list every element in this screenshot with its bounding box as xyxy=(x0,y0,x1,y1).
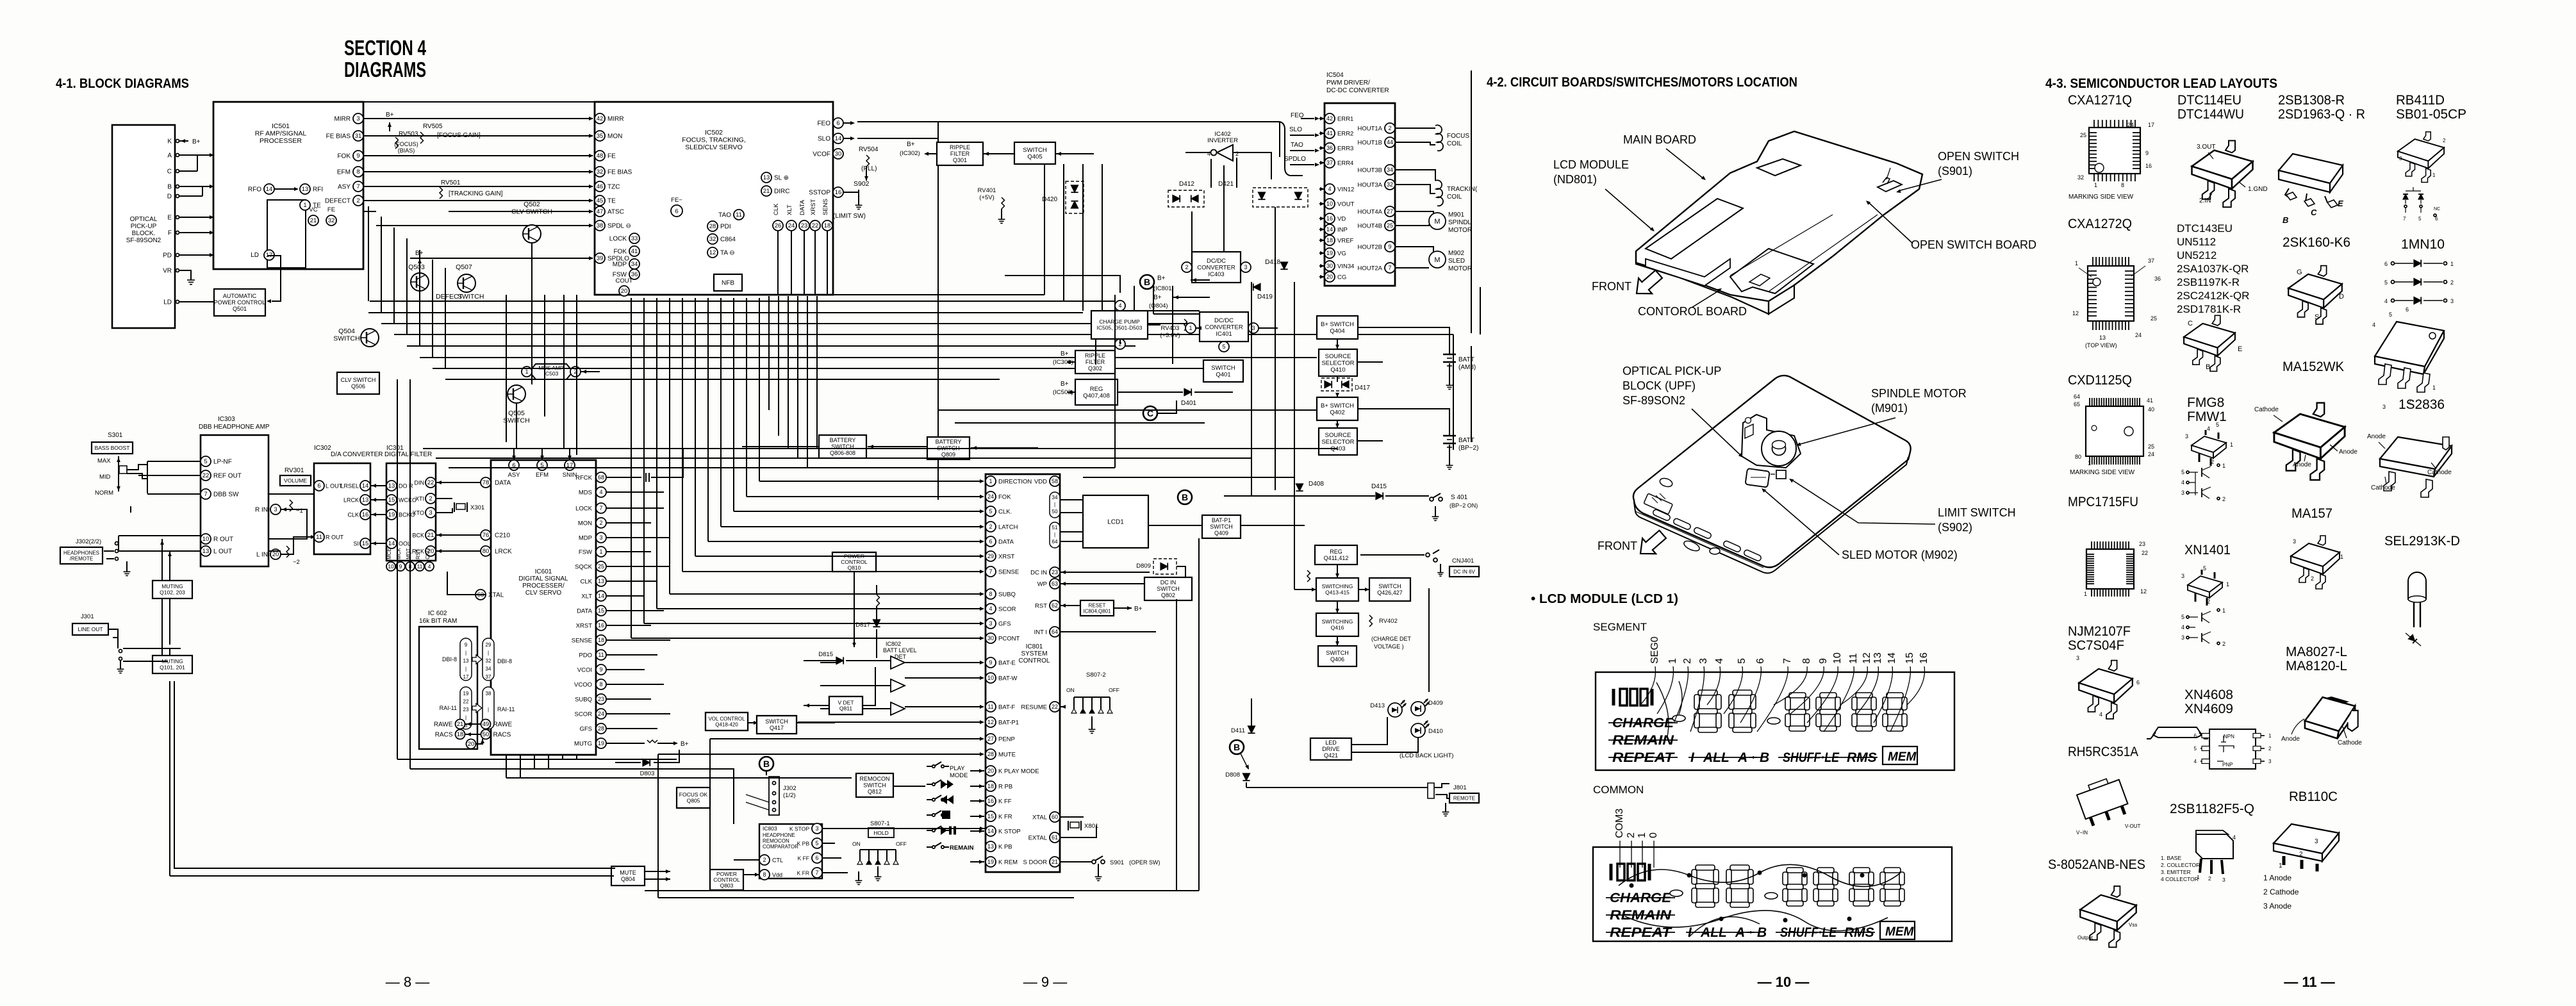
svg-text:Q806-808: Q806-808 xyxy=(830,450,855,456)
svg-text:B+ SWITCH: B+ SWITCH xyxy=(1321,321,1354,328)
svg-text:51: 51 xyxy=(1052,525,1058,531)
svg-text:IC303: IC303 xyxy=(218,416,235,423)
svg-text:1: 1 xyxy=(525,368,528,375)
svg-text:16: 16 xyxy=(835,189,842,196)
svg-text:MON: MON xyxy=(578,520,592,527)
svg-text:18: 18 xyxy=(987,783,994,789)
svg-text:CTL: CTL xyxy=(772,857,783,864)
svg-text:2: 2 xyxy=(2450,279,2454,286)
svg-text:POWER CONTROL: POWER CONTROL xyxy=(214,299,266,306)
svg-text:OPTICAL: OPTICAL xyxy=(130,216,158,223)
svg-text:SEL2913K-D: SEL2913K-D xyxy=(2384,534,2460,548)
svg-text:5: 5 xyxy=(989,508,992,515)
svg-text:RAWE: RAWE xyxy=(434,722,453,729)
svg-text:HOUT4A: HOUT4A xyxy=(1357,209,1382,216)
svg-text:EXTAL: EXTAL xyxy=(1028,835,1047,842)
svg-text:PICK-UP: PICK-UP xyxy=(131,223,157,230)
svg-text:4: 4 xyxy=(1118,302,1121,309)
svg-text:FE BIAS: FE BIAS xyxy=(607,169,632,176)
svg-text:3. EMITTER: 3. EMITTER xyxy=(2161,869,2191,875)
svg-text:35: 35 xyxy=(597,133,604,140)
svg-text:18: 18 xyxy=(457,731,464,738)
svg-text:30: 30 xyxy=(1326,263,1333,269)
svg-text:OFF: OFF xyxy=(1109,687,1119,693)
svg-text:13: 13 xyxy=(1872,652,1883,664)
svg-text:21: 21 xyxy=(763,188,770,195)
svg-text:RESUME: RESUME xyxy=(1021,704,1047,711)
svg-text:DEFECT: DEFECT xyxy=(325,198,351,205)
svg-text:13: 13 xyxy=(763,174,770,181)
svg-text:34: 34 xyxy=(1387,167,1393,173)
svg-text:Q506: Q506 xyxy=(351,383,365,390)
svg-text:D808: D808 xyxy=(1225,771,1240,779)
svg-text:SWITCH: SWITCH xyxy=(1157,586,1180,592)
svg-text:FILTER: FILTER xyxy=(950,151,970,157)
svg-text:VCOF: VCOF xyxy=(813,151,830,158)
svg-text:FE BIAS: FE BIAS xyxy=(326,133,351,140)
svg-text:X301: X301 xyxy=(470,504,484,511)
svg-text:XTAL: XTAL xyxy=(1032,814,1047,821)
svg-text:Q416: Q416 xyxy=(1331,625,1344,631)
svg-text:HOLD: HOLD xyxy=(873,830,889,836)
svg-text:DATA: DATA xyxy=(495,480,511,487)
svg-text:SPINDL: SPINDL xyxy=(1448,219,1472,226)
svg-text:LCD MODULE: LCD MODULE xyxy=(1553,158,1629,171)
svg-text:XLT: XLT xyxy=(786,204,793,215)
svg-text:B+: B+ xyxy=(907,141,915,148)
svg-text:SUBQ: SUBQ xyxy=(998,591,1016,598)
svg-text:PDO: PDO xyxy=(579,652,592,659)
svg-text:MAX: MAX xyxy=(97,458,111,465)
svg-text:DC IN: DC IN xyxy=(1160,579,1177,586)
svg-text:B+: B+ xyxy=(1061,381,1069,388)
svg-text:1.GND: 1.GND xyxy=(2248,186,2268,193)
svg-text:12: 12 xyxy=(709,249,716,256)
svg-text:FMG8: FMG8 xyxy=(2187,395,2224,410)
svg-text:Cathode: Cathode xyxy=(2254,406,2279,413)
svg-text:4: 4 xyxy=(2233,834,2236,841)
svg-text:39: 39 xyxy=(597,255,604,262)
svg-text:MUTE: MUTE xyxy=(620,870,636,876)
svg-text:3: 3 xyxy=(2399,156,2402,161)
svg-text:1: 1 xyxy=(1667,658,1678,664)
svg-text:VDD: VDD xyxy=(1034,479,1047,486)
svg-text:20: 20 xyxy=(621,288,628,295)
svg-text:K FF: K FF xyxy=(798,855,809,862)
svg-text:3: 3 xyxy=(429,509,432,516)
svg-text:78: 78 xyxy=(483,479,490,486)
svg-text:CG: CG xyxy=(1337,274,1346,281)
svg-text:15: 15 xyxy=(987,813,994,820)
svg-text:19: 19 xyxy=(463,691,469,697)
svg-text:SLED/CLV SERVO: SLED/CLV SERVO xyxy=(685,144,742,151)
svg-text:24: 24 xyxy=(987,493,994,500)
svg-text:2: 2 xyxy=(2311,575,2314,582)
svg-text:DC/DC: DC/DC xyxy=(1207,258,1226,265)
svg-text:5: 5 xyxy=(2418,216,2422,222)
svg-text:6: 6 xyxy=(836,120,839,127)
svg-text:DBI-8: DBI-8 xyxy=(497,658,512,664)
svg-text:2: 2 xyxy=(1235,151,1239,157)
svg-text:S 401: S 401 xyxy=(1451,494,1468,501)
svg-text:5: 5 xyxy=(2194,746,2197,752)
svg-text:D815: D815 xyxy=(818,651,833,658)
svg-text:2: 2 xyxy=(989,524,992,530)
svg-text:BATTERY: BATTERY xyxy=(830,437,856,443)
svg-text:50: 50 xyxy=(483,731,490,738)
svg-text:3: 3 xyxy=(815,825,818,832)
svg-text:4 COLLECTOR: 4 COLLECTOR xyxy=(2161,876,2199,882)
svg-text:Q501: Q501 xyxy=(233,306,247,312)
svg-text:2: 2 xyxy=(2208,875,2211,882)
svg-text:SOURCE: SOURCE xyxy=(1325,432,1351,439)
svg-text:WCKO: WCKO xyxy=(399,497,417,504)
svg-text:3 Anode: 3 Anode xyxy=(2263,902,2291,911)
svg-text:|: | xyxy=(488,650,489,656)
svg-text:2: 2 xyxy=(2211,459,2214,465)
svg-text:(BP−2): (BP−2) xyxy=(1458,445,1478,452)
svg-text:5: 5 xyxy=(2216,422,2219,428)
svg-text:AUTOMATIC: AUTOMATIC xyxy=(223,293,257,299)
svg-text:MDP: MDP xyxy=(613,261,627,268)
svg-text:2SB1308-R: 2SB1308-R xyxy=(2278,93,2345,108)
svg-text:12: 12 xyxy=(1862,652,1872,664)
svg-text:OOL: OOL xyxy=(399,541,411,547)
svg-text:NORM: NORM xyxy=(95,490,113,497)
svg-text:PNP: PNP xyxy=(2222,762,2233,768)
svg-text:SWITCH: SWITCH xyxy=(1023,147,1047,154)
svg-text:SI: SI xyxy=(353,541,359,547)
svg-text:DIRECTION: DIRECTION xyxy=(998,479,1032,486)
svg-text:MEM: MEM xyxy=(1888,750,1917,764)
svg-text:K STOP: K STOP xyxy=(789,826,809,832)
svg-text:3: 3 xyxy=(989,620,992,627)
svg-text:2: 2 xyxy=(1388,125,1391,131)
svg-text:VCOI: VCOI xyxy=(577,667,592,674)
svg-text:D/A CONVERTER: D/A CONVERTER xyxy=(331,451,383,458)
svg-text:MARKING SIDE VIEW: MARKING SIDE VIEW xyxy=(2070,469,2135,476)
svg-text:32: 32 xyxy=(2077,174,2084,181)
svg-text:FOCUS: FOCUS xyxy=(1447,133,1469,140)
svg-text:SEG0: SEG0 xyxy=(1649,636,1660,664)
svg-text:BATT: BATT xyxy=(1458,356,1474,363)
svg-text:K: K xyxy=(167,138,172,145)
svg-text:RV301: RV301 xyxy=(285,467,304,474)
svg-text:Cathode: Cathode xyxy=(2338,739,2362,746)
svg-text:Q503: Q503 xyxy=(408,263,425,271)
svg-text:TAO: TAO xyxy=(718,212,731,219)
svg-text:1: 1 xyxy=(1189,325,1192,331)
svg-text:0: 0 xyxy=(1648,832,1659,838)
svg-text:2: 2 xyxy=(2268,746,2272,752)
svg-text:25: 25 xyxy=(2080,132,2086,138)
svg-text:ATSC: ATSC xyxy=(607,209,624,216)
svg-text:28: 28 xyxy=(598,725,604,732)
svg-text:NPN: NPN xyxy=(2224,734,2234,739)
svg-text:30: 30 xyxy=(835,151,842,158)
svg-text:J801: J801 xyxy=(1453,784,1467,791)
svg-text:PWM DRIVER/: PWM DRIVER/ xyxy=(1326,79,1370,87)
svg-text:Vss: Vss xyxy=(2129,922,2137,928)
svg-text:25: 25 xyxy=(598,563,604,570)
svg-text:|: | xyxy=(465,650,466,656)
svg-text:8: 8 xyxy=(1801,658,1812,664)
svg-text:4: 4 xyxy=(1714,658,1725,664)
svg-text:SEGMENT: SEGMENT xyxy=(1593,621,1647,633)
svg-text:3: 3 xyxy=(2181,573,2184,579)
svg-text:3: 3 xyxy=(599,534,602,541)
svg-text:14: 14 xyxy=(266,186,273,193)
svg-text:RV504: RV504 xyxy=(859,146,879,153)
svg-text:IC803: IC803 xyxy=(763,825,777,832)
svg-text:IC801: IC801 xyxy=(1026,643,1043,650)
svg-text:Q302: Q302 xyxy=(1088,365,1102,372)
svg-text:SELECTOR: SELECTOR xyxy=(1321,438,1354,445)
svg-text:Q402: Q402 xyxy=(1330,409,1344,416)
svg-text:63: 63 xyxy=(1052,581,1058,587)
svg-text:44: 44 xyxy=(1387,139,1393,145)
svg-text:VOUT: VOUT xyxy=(1337,201,1355,208)
svg-text:C: C xyxy=(2311,208,2317,217)
svg-text:COUT: COUT xyxy=(616,277,633,284)
svg-text:21: 21 xyxy=(310,217,317,224)
svg-text:3: 3 xyxy=(1251,325,1255,331)
svg-text:Q504: Q504 xyxy=(338,327,355,335)
svg-text:24: 24 xyxy=(2135,332,2142,338)
svg-text:1: 1 xyxy=(2230,441,2233,448)
svg-text:MUTING: MUTING xyxy=(161,583,183,590)
svg-text:37: 37 xyxy=(486,674,491,680)
svg-text:B: B xyxy=(2206,363,2210,371)
svg-text:22: 22 xyxy=(2142,550,2148,556)
svg-text:SB01-05CP: SB01-05CP xyxy=(2396,107,2466,122)
svg-text:SWITCHING: SWITCHING xyxy=(1322,583,1353,590)
svg-text:IC505, D501-D503: IC505, D501-D503 xyxy=(1097,325,1143,331)
svg-text:REMOCON: REMOCON xyxy=(860,776,890,782)
svg-text:2: 2 xyxy=(599,520,602,526)
svg-text:IC504: IC504 xyxy=(1326,72,1344,79)
svg-text:SENSE: SENSE xyxy=(998,569,1019,576)
svg-text:DO R: DO R xyxy=(399,483,413,490)
svg-text:19: 19 xyxy=(1326,250,1333,256)
svg-text:LD: LD xyxy=(251,252,259,259)
svg-text:23: 23 xyxy=(801,222,808,229)
svg-text:VR: VR xyxy=(163,268,172,275)
svg-text:18: 18 xyxy=(598,637,604,643)
svg-text:CLK: CLK xyxy=(347,512,359,518)
svg-text:IC802: IC802 xyxy=(886,641,901,647)
svg-text:S807-2: S807-2 xyxy=(1086,672,1106,679)
svg-text:42: 42 xyxy=(597,115,604,122)
svg-text:M902: M902 xyxy=(1448,250,1464,257)
svg-text:13: 13 xyxy=(302,186,309,193)
svg-text:FE−: FE− xyxy=(671,197,682,204)
svg-text:29: 29 xyxy=(987,553,994,559)
svg-text:RIPPLE: RIPPLE xyxy=(950,144,970,151)
svg-text:38: 38 xyxy=(486,691,491,697)
svg-text:CLK.: CLK. xyxy=(998,509,1012,516)
svg-text:FRONT: FRONT xyxy=(1592,280,1631,293)
svg-text:(+3.6V): (+3.6V) xyxy=(1160,332,1180,339)
svg-text:2. COLLECTOR: 2. COLLECTOR xyxy=(2161,862,2200,868)
svg-text:SCOR: SCOR xyxy=(575,711,593,718)
svg-text:MIRR: MIRR xyxy=(607,116,624,123)
svg-text:(CHARGE DET: (CHARGE DET xyxy=(1371,636,1412,642)
svg-text:IC804,Q801: IC804,Q801 xyxy=(1083,608,1111,614)
svg-text:K FR: K FR xyxy=(998,814,1012,821)
svg-text:BLOCK.: BLOCK. xyxy=(132,230,156,237)
svg-text:1: 1 xyxy=(2075,260,2078,267)
svg-text:XN4608: XN4608 xyxy=(2184,688,2233,702)
svg-text:2: 2 xyxy=(2299,851,2303,858)
svg-text:B: B xyxy=(1182,492,1188,502)
svg-text:16: 16 xyxy=(987,798,994,804)
svg-text:CLV SWITCH: CLV SWITCH xyxy=(341,377,376,383)
svg-text:DIN: DIN xyxy=(415,480,425,486)
svg-text:CHARGE PUMP: CHARGE PUMP xyxy=(1099,318,1140,325)
svg-text:46: 46 xyxy=(597,183,604,190)
svg-text:RFO: RFO xyxy=(248,186,261,194)
svg-text:FOK: FOK xyxy=(337,153,351,160)
svg-text:MCE: MCE xyxy=(386,548,392,559)
svg-text:COIL: COIL xyxy=(1447,194,1462,201)
svg-text:Q812: Q812 xyxy=(868,789,882,795)
svg-text:TE: TE xyxy=(607,198,616,205)
svg-text:6: 6 xyxy=(675,208,678,215)
svg-text:16k BIT RAM: 16k BIT RAM xyxy=(419,618,457,625)
svg-text:11: 11 xyxy=(598,652,604,658)
svg-text:17: 17 xyxy=(463,674,469,680)
svg-text:MOTOR: MOTOR xyxy=(1448,265,1472,272)
svg-text:6: 6 xyxy=(815,855,818,861)
svg-text:Q410: Q410 xyxy=(1330,367,1345,374)
svg-text:15: 15 xyxy=(388,497,395,504)
svg-text:22: 22 xyxy=(1052,704,1058,710)
svg-text:D817: D817 xyxy=(855,622,870,629)
svg-text:RV402: RV402 xyxy=(1379,618,1398,625)
svg-text:M901: M901 xyxy=(1448,211,1464,219)
svg-text:E: E xyxy=(167,215,172,222)
svg-text:DATA: DATA xyxy=(998,539,1014,546)
svg-text:D419: D419 xyxy=(1257,293,1273,301)
svg-text:21: 21 xyxy=(457,721,464,728)
svg-text:Q413-415: Q413-415 xyxy=(1325,590,1350,596)
svg-text:4: 4 xyxy=(2181,624,2184,631)
svg-text:(PLL): (PLL) xyxy=(861,165,877,172)
svg-text:SNIN: SNIN xyxy=(563,472,577,479)
svg-text:5: 5 xyxy=(1222,343,1225,350)
svg-text:4-3. SEMICONDUCTOR LEAD LAY: 4-3. SEMICONDUCTOR LEAD LAYOUTS xyxy=(2045,76,2277,91)
svg-text:24: 24 xyxy=(2148,451,2154,458)
svg-text:14: 14 xyxy=(598,593,604,599)
svg-text:24: 24 xyxy=(2127,122,2134,128)
svg-text:IC601: IC601 xyxy=(535,568,552,575)
svg-text:SLO: SLO xyxy=(1289,126,1302,133)
svg-text:MPC1715FU: MPC1715FU xyxy=(2068,495,2138,509)
svg-text:Q803: Q803 xyxy=(720,882,734,889)
svg-text:3: 3 xyxy=(2181,634,2184,641)
svg-text:SL ⊕: SL ⊕ xyxy=(774,175,789,182)
svg-text:21: 21 xyxy=(1052,859,1058,865)
svg-text:SCOR: SCOR xyxy=(998,606,1016,613)
svg-text:XTI: XTI xyxy=(415,496,424,502)
svg-text:19: 19 xyxy=(987,859,994,865)
svg-text:4: 4 xyxy=(1328,186,1331,192)
svg-text:Vdd: Vdd xyxy=(772,872,782,878)
svg-text:Q101, 201: Q101, 201 xyxy=(160,664,185,671)
svg-text:GFS: GFS xyxy=(998,621,1011,628)
svg-text:6: 6 xyxy=(2194,733,2197,739)
svg-text:FRONT: FRONT xyxy=(1598,540,1637,552)
svg-text:20: 20 xyxy=(987,768,994,774)
svg-text:65: 65 xyxy=(2074,401,2080,408)
svg-text:4: 4 xyxy=(989,606,992,612)
svg-text:Anode: Anode xyxy=(2281,736,2300,743)
svg-text:1 Anode: 1 Anode xyxy=(2263,873,2291,882)
svg-text:Anode: Anode xyxy=(2339,449,2357,456)
svg-text:DBI-8: DBI-8 xyxy=(442,656,457,663)
svg-text:SC7S04F: SC7S04F xyxy=(2068,638,2124,653)
svg-text:FSW: FSW xyxy=(579,549,592,556)
svg-text:HEADPHONES: HEADPHONES xyxy=(63,550,99,556)
svg-text:|: | xyxy=(1054,502,1055,507)
svg-text:LOCK: LOCK xyxy=(575,506,593,513)
svg-text:24: 24 xyxy=(788,222,795,229)
svg-text:HOUT2B: HOUT2B xyxy=(1357,244,1382,251)
svg-text:REF OUT: REF OUT xyxy=(213,473,242,480)
svg-text:SLO: SLO xyxy=(818,136,830,143)
svg-text:(1/2): (1/2) xyxy=(783,792,796,799)
svg-text:RF AMP/SIGNAL: RF AMP/SIGNAL xyxy=(255,130,307,138)
svg-text:(IC302): (IC302) xyxy=(900,150,920,157)
svg-text:B+: B+ xyxy=(1134,606,1143,613)
svg-text:CLV SWITCH: CLV SWITCH xyxy=(511,208,552,216)
svg-text:TRACKIN(: TRACKIN( xyxy=(1447,186,1478,193)
svg-text:CONVERTER: CONVERTER xyxy=(1205,324,1243,331)
svg-text:40: 40 xyxy=(2148,406,2154,413)
svg-text:22: 22 xyxy=(463,699,469,705)
svg-text:BAT-W: BAT-W xyxy=(998,675,1017,682)
svg-text:B+: B+ xyxy=(1153,294,1162,301)
svg-text:6: 6 xyxy=(2136,679,2140,686)
svg-text:E: E xyxy=(2338,199,2343,208)
svg-text:D401: D401 xyxy=(1181,400,1196,407)
svg-text:22: 22 xyxy=(812,222,819,229)
svg-text:Cathode: Cathode xyxy=(2427,469,2452,476)
svg-text:5: 5 xyxy=(2384,279,2388,286)
svg-text:5: 5 xyxy=(2389,311,2392,318)
svg-text:1: 1 xyxy=(2279,862,2283,870)
svg-text:BAT-P1: BAT-P1 xyxy=(1212,517,1231,524)
svg-text:DATA: DATA xyxy=(577,608,593,615)
svg-text:SWITCH: SWITCH xyxy=(1326,650,1349,656)
svg-text:14: 14 xyxy=(388,540,395,547)
svg-text:19: 19 xyxy=(598,740,604,746)
svg-text:14: 14 xyxy=(1887,652,1897,664)
svg-text:DRIVE: DRIVE xyxy=(1322,746,1340,752)
svg-text:ERR2: ERR2 xyxy=(1337,131,1353,138)
svg-text:DIGITAL FILTER: DIGITAL FILTER xyxy=(384,451,432,458)
svg-text:IC401: IC401 xyxy=(1216,331,1232,338)
svg-text:34: 34 xyxy=(631,261,638,268)
svg-text:23: 23 xyxy=(2139,541,2145,547)
svg-text:SSTOP: SSTOP xyxy=(809,190,830,197)
svg-text:BAT-F: BAT-F xyxy=(998,704,1015,711)
svg-text:25: 25 xyxy=(2148,443,2154,450)
svg-text:DIAGRAMS: DIAGRAMS xyxy=(344,58,426,81)
svg-text:5: 5 xyxy=(1737,658,1747,664)
svg-text:7: 7 xyxy=(599,505,602,511)
